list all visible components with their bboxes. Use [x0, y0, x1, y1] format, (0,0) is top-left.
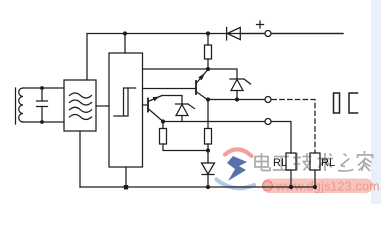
wire filter to IC: [96, 105, 109, 107]
glyph gong: [273, 157, 290, 171]
glyph shu: [318, 153, 334, 171]
wire top rail: [87, 34, 343, 81]
wire Q1 emitter node to terminal T2: [208, 99, 265, 101]
dashed wire T2 to relay RL2: [272, 100, 315, 154]
node dot Q1 emitter: [206, 97, 210, 101]
wire node C to terminal T3: [163, 121, 265, 123]
capacitor C1: [41, 88, 43, 101]
inductor L1: [19, 88, 23, 122]
resistor R3: [207, 100, 209, 129]
wire Q2 emitter to zener D3: [162, 96, 182, 105]
zener D2: [208, 69, 237, 79]
wire T3 to relay RL1: [271, 122, 291, 154]
Q2 emitter arrow: [153, 97, 160, 102]
node dot Q2 collector: [161, 119, 165, 123]
node dot ground D4: [206, 185, 210, 189]
diode D4: [207, 151, 209, 164]
node dot B: [206, 67, 210, 71]
node dot ground IC: [124, 185, 128, 189]
terminal T3: [265, 119, 271, 125]
watermark url band: [262, 179, 380, 194]
glyph ji: [293, 153, 312, 171]
transistor Q2: [147, 99, 149, 112]
hysteresis symbol: [114, 88, 136, 116]
wire filter bottom to ground rail: [79, 131, 81, 187]
glyph jia: [358, 151, 373, 171]
resistor R2: [162, 122, 164, 129]
relay coil RL1: [286, 153, 296, 170]
watermark logo: [217, 149, 255, 188]
node dot cap bottom: [40, 120, 44, 124]
relay coil RL2: [310, 153, 320, 170]
node dot ground RL1: [289, 185, 293, 189]
resistor R1: [207, 34, 209, 46]
terminal T2: [265, 97, 271, 103]
node dot D2 anode: [235, 97, 239, 101]
wire top L1 to filter: [23, 87, 64, 89]
wire bottom L1 to filter: [23, 121, 64, 123]
transistor Q1: [195, 81, 197, 94]
wire IC bottom pin: [125, 167, 127, 187]
glyph dian: [255, 153, 270, 171]
filter waves: [70, 93, 92, 98]
filter box U1: [64, 80, 96, 131]
wire right of T1: [271, 33, 343, 35]
node dot ground RL2: [313, 185, 317, 189]
node dot IC top: [123, 31, 127, 35]
IC box U2: [109, 53, 143, 167]
glyph zhi: [338, 154, 354, 172]
svg-text:RL: RL: [273, 157, 287, 169]
zener D3: [176, 103, 189, 105]
node dot R1 top: [206, 31, 210, 35]
svg-text:RL: RL: [321, 157, 335, 169]
terminal T1: [265, 31, 271, 37]
wire IC pin to Q1 base: [143, 88, 197, 90]
watermark text 电工技术之家 (approximated glyph strokes): [255, 151, 373, 171]
ground rail: [80, 186, 316, 188]
contact glyph rect: [334, 93, 340, 113]
wire IC pin to node B: [143, 68, 209, 70]
plus sign: [257, 24, 264, 26]
wire IC pin to Q2 base: [143, 104, 149, 106]
node dot R bottom: [206, 148, 210, 152]
wire IC top pin: [124, 34, 126, 54]
diode D1 top: [226, 27, 228, 40]
Q1 emitter arrow: [198, 73, 205, 80]
contact glyph bracket: [349, 93, 358, 113]
antenna core bar: [15, 88, 17, 124]
right page blue strip: [371, 0, 381, 204]
node dot cap top: [40, 86, 44, 90]
